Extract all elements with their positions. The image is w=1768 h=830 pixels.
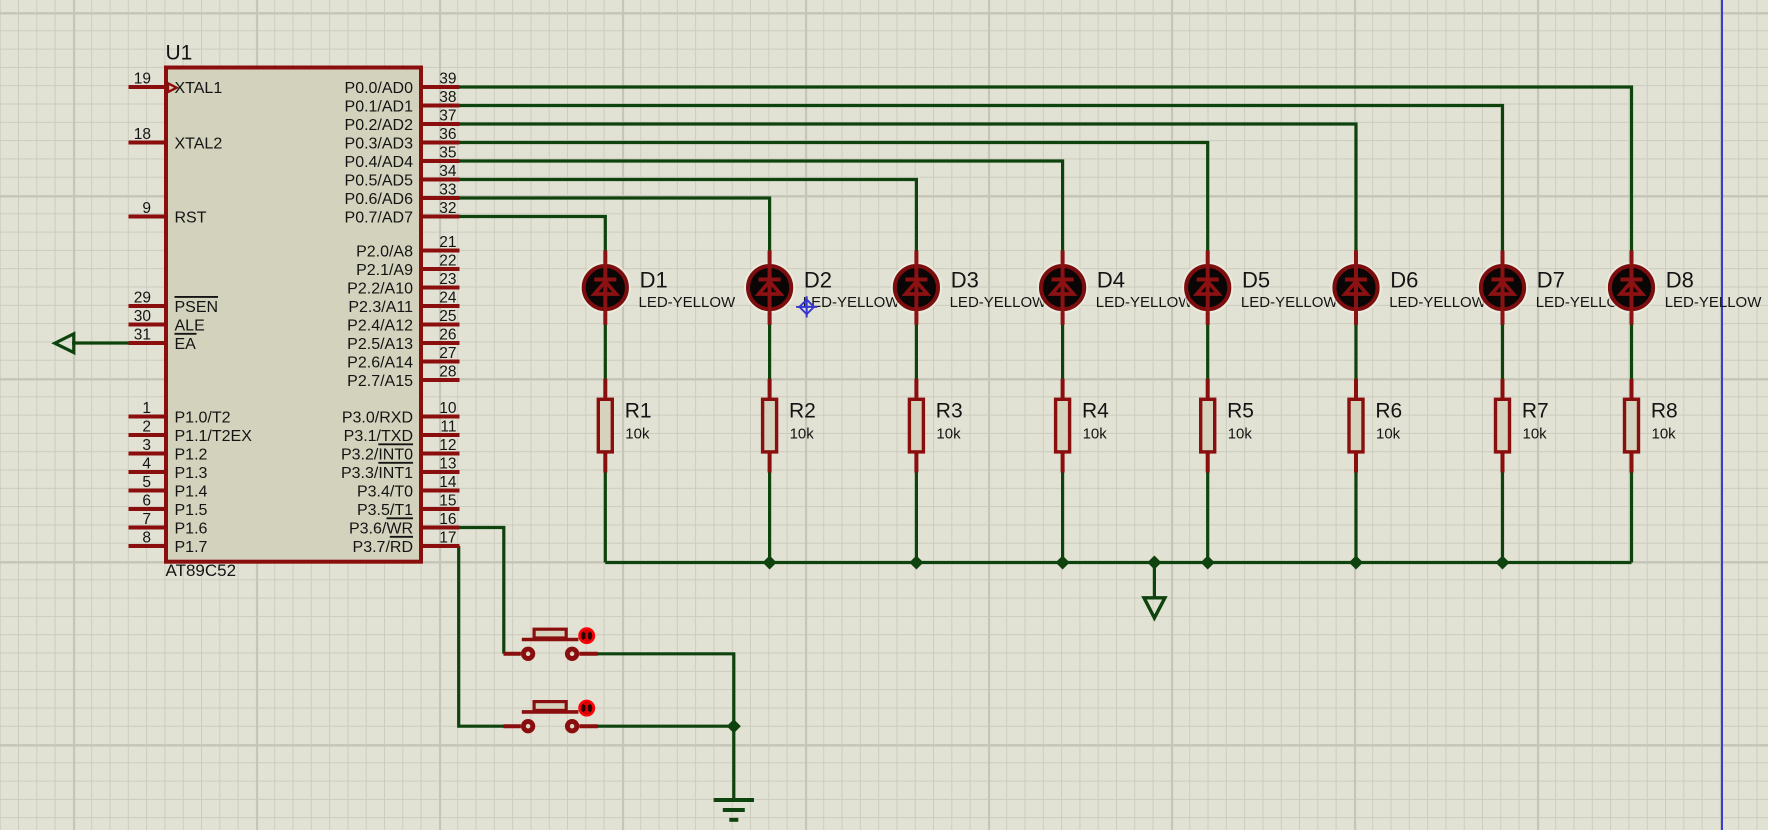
- wire LED D7 to resistor R7: [1501, 324, 1504, 380]
- svg-text:28: 28: [439, 364, 456, 381]
- svg-text:36: 36: [439, 126, 456, 143]
- LED D2: [745, 251, 900, 325]
- svg-text:5: 5: [142, 474, 151, 491]
- wire LED D2 to resistor R2: [768, 324, 771, 380]
- WR overline: [387, 517, 414, 519]
- svg-text:U1: U1: [166, 42, 193, 65]
- svg-text:12: 12: [439, 437, 456, 454]
- svg-text:16: 16: [439, 511, 456, 528]
- svg-text:6: 6: [142, 493, 151, 510]
- pin 14 P3.4/T0: [357, 474, 460, 500]
- svg-text:26: 26: [439, 327, 456, 344]
- pin 9 RST: [129, 200, 207, 226]
- svg-text:P0.1/AD1: P0.1/AD1: [345, 98, 414, 115]
- sheet border (blue): [1721, 0, 1723, 830]
- pin 4 P1.3: [129, 456, 208, 482]
- svg-text:22: 22: [439, 253, 456, 270]
- junction on rail at x=1208: [1202, 557, 1214, 569]
- svg-text:30: 30: [134, 308, 152, 325]
- wire rail to ground arrow: [1153, 563, 1156, 598]
- wire button 1 to node at x=733.8: [598, 654, 734, 726]
- svg-text:10k: 10k: [1652, 426, 1677, 443]
- svg-text:R5: R5: [1227, 399, 1254, 422]
- wire LED D4 to resistor R4: [1061, 324, 1064, 380]
- clock input marker pin 19: [168, 83, 177, 92]
- svg-text:LED-YELLOW: LED-YELLOW: [803, 294, 901, 311]
- junction on rail at x=1502: [1497, 557, 1509, 569]
- svg-text:LED-YELLOW: LED-YELLOW: [1096, 294, 1194, 311]
- svg-text:27: 27: [439, 345, 456, 362]
- svg-text:7: 7: [142, 511, 151, 528]
- wire button 2 to ground node: [598, 725, 734, 728]
- wire LED D8 to resistor R8: [1630, 324, 1633, 380]
- svg-text:LED-YELLOW: LED-YELLOW: [1665, 294, 1763, 311]
- pin 30 ALE: [129, 308, 205, 334]
- ground arrow (rail): [1144, 598, 1165, 618]
- svg-text:P2.2/A10: P2.2/A10: [347, 280, 413, 297]
- pin 5 P1.4: [129, 474, 208, 500]
- pin 3 P1.2: [129, 437, 208, 463]
- pin 38 P0.1/AD1: [345, 89, 460, 115]
- resistor R3 10k: [909, 379, 962, 473]
- svg-text:XTAL1: XTAL1: [175, 80, 223, 97]
- pin 6 P1.5: [129, 493, 208, 519]
- pin 34 P0.5/AD5: [345, 163, 460, 189]
- resistor R5 10k: [1201, 379, 1254, 473]
- wire pin 17 P3.7/RD to button 2: [459, 546, 504, 726]
- svg-text:13: 13: [439, 456, 456, 473]
- svg-text:P1.5: P1.5: [175, 502, 208, 519]
- svg-text:D5: D5: [1242, 267, 1270, 292]
- svg-text:R3: R3: [936, 399, 963, 422]
- wire resistor R1 to ground rail: [604, 472, 607, 563]
- ground (buttons): [714, 800, 754, 820]
- pin 21 P2.0/A8: [356, 234, 459, 260]
- svg-text:P3.3/INT1: P3.3/INT1: [341, 465, 413, 482]
- pin 39 P0.0/AD0: [345, 71, 460, 97]
- INT0 overline: [378, 443, 413, 445]
- pin 7 P1.6: [129, 511, 208, 537]
- resistor R4 10k: [1056, 379, 1110, 473]
- svg-text:10k: 10k: [1523, 426, 1548, 443]
- svg-text:P2.5/A13: P2.5/A13: [347, 336, 413, 353]
- svg-text:D7: D7: [1537, 267, 1565, 292]
- svg-text:10k: 10k: [936, 426, 961, 443]
- wire ground rail: [605, 561, 1631, 564]
- junction on rail at x=1356: [1350, 557, 1362, 569]
- svg-text:14: 14: [439, 474, 457, 491]
- wire resistor R7 to ground rail: [1501, 472, 1504, 563]
- pin 36 P0.3/AD3: [345, 126, 460, 152]
- svg-text:21: 21: [439, 234, 456, 251]
- svg-text:P1.6: P1.6: [175, 520, 208, 537]
- svg-text:10: 10: [439, 400, 457, 417]
- svg-text:R8: R8: [1651, 399, 1678, 422]
- svg-text:37: 37: [439, 108, 456, 125]
- svg-text:D8: D8: [1666, 267, 1694, 292]
- svg-text:P1.4: P1.4: [175, 483, 208, 500]
- origin marker (blue crosshair): [796, 296, 817, 317]
- INT1 overline: [378, 462, 413, 464]
- pin 2 P1.1/T2EX: [129, 419, 253, 445]
- svg-text:XTAL2: XTAL2: [175, 135, 223, 152]
- wire P0.0 (pin 39) to LED column x=1632: [459, 87, 1632, 251]
- svg-text:24: 24: [439, 290, 457, 307]
- wire resistor R8 to ground rail: [1630, 472, 1633, 563]
- svg-text:P2.1/A9: P2.1/A9: [356, 262, 413, 279]
- wire LED D6 to resistor R6: [1354, 324, 1357, 380]
- svg-text:D3: D3: [951, 267, 979, 292]
- wire resistor R2 to ground rail: [768, 472, 771, 563]
- PSEN overline: [175, 296, 219, 298]
- svg-text:19: 19: [134, 71, 151, 88]
- pin 13 P3.3/INT1: [341, 456, 460, 482]
- resistor R1 10k: [598, 379, 651, 473]
- svg-text:8: 8: [142, 530, 151, 547]
- pin 23 P2.2/A10: [347, 271, 459, 297]
- pin 26 P2.5/A13: [347, 327, 459, 353]
- svg-text:34: 34: [439, 163, 457, 180]
- svg-text:2: 2: [142, 419, 151, 436]
- wire P0.3 (pin 36) to LED column x=1208: [459, 143, 1208, 252]
- svg-text:18: 18: [134, 126, 151, 143]
- LED D5: [1183, 251, 1338, 325]
- wire P0.2 (pin 37) to LED column x=1356: [459, 124, 1356, 251]
- svg-text:1: 1: [142, 400, 151, 417]
- wire pin 16 P3.6/WR to button 1: [459, 528, 504, 654]
- svg-text:P0.7/AD7: P0.7/AD7: [345, 209, 414, 226]
- EA input arrow: [55, 334, 74, 353]
- svg-text:P1.0/T2: P1.0/T2: [175, 409, 231, 426]
- LED D8: [1607, 251, 1762, 325]
- pin 33 P0.6/AD6: [345, 182, 460, 208]
- svg-text:P2.7/A15: P2.7/A15: [347, 373, 413, 390]
- svg-text:P1.7: P1.7: [175, 539, 208, 556]
- LED D1: [581, 251, 736, 325]
- pin 15 P3.5/T1: [357, 493, 460, 519]
- pin 11 P3.1/TXD: [344, 419, 460, 445]
- push button 2 (to P3.7/RD): [503, 701, 597, 731]
- pin 37 P0.2/AD2: [345, 108, 460, 134]
- svg-text:D6: D6: [1390, 267, 1418, 292]
- LED D6: [1331, 251, 1486, 325]
- svg-text:P1.1/T2EX: P1.1/T2EX: [175, 428, 253, 445]
- svg-text:RST: RST: [175, 209, 207, 226]
- svg-text:EA: EA: [175, 336, 197, 353]
- svg-text:P0.6/AD6: P0.6/AD6: [345, 191, 414, 208]
- wire resistor R6 to ground rail: [1354, 472, 1357, 563]
- svg-text:AT89C52: AT89C52: [166, 561, 237, 580]
- svg-text:39: 39: [439, 71, 456, 88]
- svg-text:P0.4/AD4: P0.4/AD4: [345, 154, 414, 171]
- svg-text:R2: R2: [789, 399, 816, 422]
- resistor R2 10k: [763, 379, 816, 473]
- junction on rail at x=770: [764, 557, 776, 569]
- pin 31 EA: [129, 327, 197, 353]
- svg-text:15: 15: [439, 493, 456, 510]
- pin 32 P0.7/AD7: [345, 200, 460, 226]
- svg-text:31: 31: [134, 327, 151, 344]
- wire LED D3 to resistor R3: [915, 324, 918, 380]
- svg-text:P3.2/INT0: P3.2/INT0: [341, 446, 413, 463]
- wire resistor R4 to ground rail: [1061, 472, 1064, 563]
- svg-text:P2.6/A14: P2.6/A14: [347, 354, 413, 371]
- junction on rail at x=916: [911, 557, 923, 569]
- svg-text:10k: 10k: [625, 426, 650, 443]
- svg-text:D1: D1: [640, 267, 668, 292]
- resistor R7 10k: [1496, 379, 1549, 473]
- wire EA pin 31: [72, 341, 129, 344]
- pin 28 P2.7/A15: [347, 364, 459, 390]
- pin 16 P3.6/WR: [349, 511, 460, 537]
- svg-text:P3.7/RD: P3.7/RD: [353, 539, 413, 556]
- svg-text:10k: 10k: [1228, 426, 1253, 443]
- resistor R6 10k: [1349, 379, 1402, 473]
- svg-text:P3.1/TXD: P3.1/TXD: [344, 428, 413, 445]
- svg-text:10k: 10k: [1376, 426, 1401, 443]
- EA overline: [175, 333, 197, 335]
- svg-text:P1.3: P1.3: [175, 465, 208, 482]
- svg-text:P0.5/AD5: P0.5/AD5: [345, 172, 414, 189]
- wire P0.7 (pin 32) to LED column x=605: [459, 217, 605, 252]
- junction buttons/ground node: [728, 720, 740, 732]
- wire node to ground symbol: [732, 726, 735, 800]
- svg-text:10k: 10k: [1083, 426, 1108, 443]
- pin 29 PSEN: [129, 290, 219, 316]
- svg-text:P0.0/AD0: P0.0/AD0: [345, 80, 414, 97]
- wire resistor R5 to ground rail: [1206, 472, 1209, 563]
- svg-text:10k: 10k: [790, 426, 815, 443]
- pin 18 XTAL2: [129, 126, 223, 152]
- svg-text:D4: D4: [1097, 267, 1125, 292]
- svg-text:LED-YELLOW: LED-YELLOW: [1389, 294, 1487, 311]
- push button 1 (to P3.6/WR): [503, 629, 597, 659]
- wire P0.4 (pin 35) to LED column x=1063: [459, 161, 1063, 251]
- junction on rail at x=1154: [1149, 557, 1161, 569]
- svg-text:P2.3/A11: P2.3/A11: [348, 299, 413, 316]
- wire LED D5 to resistor R5: [1206, 324, 1209, 380]
- svg-text:3: 3: [142, 437, 151, 454]
- svg-text:P1.2: P1.2: [175, 446, 208, 463]
- pin 35 P0.4/AD4: [345, 145, 460, 171]
- svg-text:P2.0/A8: P2.0/A8: [356, 243, 413, 260]
- wire resistor R3 to ground rail: [915, 472, 918, 563]
- svg-text:P3.4/T0: P3.4/T0: [357, 483, 413, 500]
- pin 10 P3.0/RXD: [342, 400, 460, 426]
- svg-text:R6: R6: [1375, 399, 1402, 422]
- svg-text:29: 29: [134, 290, 151, 307]
- svg-text:33: 33: [439, 182, 456, 199]
- svg-text:R1: R1: [625, 399, 652, 422]
- wire P0.6 (pin 33) to LED column x=770: [459, 198, 770, 251]
- RD overline: [390, 536, 413, 538]
- resistor R8 10k: [1625, 379, 1678, 473]
- svg-text:ALE: ALE: [175, 317, 205, 334]
- svg-text:9: 9: [142, 200, 151, 217]
- svg-text:P2.4/A12: P2.4/A12: [347, 317, 413, 334]
- pin 27 P2.6/A14: [347, 345, 459, 371]
- svg-text:35: 35: [439, 145, 456, 162]
- svg-text:LED-YELLOW: LED-YELLOW: [639, 294, 737, 311]
- pin 25 P2.4/A12: [347, 308, 459, 334]
- pin 17 P3.7/RD: [353, 530, 460, 556]
- svg-text:R4: R4: [1082, 399, 1109, 422]
- svg-text:25: 25: [439, 308, 456, 325]
- svg-text:P3.0/RXD: P3.0/RXD: [342, 409, 413, 426]
- svg-text:32: 32: [439, 200, 456, 217]
- pin 24 P2.3/A11: [348, 290, 459, 316]
- wire LED D1 to resistor R1: [604, 324, 607, 380]
- wire P0.5 (pin 34) to LED column x=916: [459, 180, 916, 252]
- svg-text:PSEN: PSEN: [175, 299, 219, 316]
- svg-text:LED-YELLOW: LED-YELLOW: [950, 294, 1048, 311]
- op U1 AT89C52 body: [166, 68, 421, 562]
- pin 19 XTAL1: [129, 71, 223, 97]
- LED D4: [1038, 251, 1193, 325]
- svg-text:P3.6/WR: P3.6/WR: [349, 520, 413, 537]
- wire P0.1 (pin 38) to LED column x=1502: [459, 106, 1503, 252]
- pin 12 P3.2/INT0: [341, 437, 460, 463]
- svg-text:P0.2/AD2: P0.2/AD2: [345, 117, 414, 134]
- svg-text:17: 17: [439, 530, 456, 547]
- LED D7: [1478, 251, 1633, 325]
- svg-text:LED-YELLOW: LED-YELLOW: [1241, 294, 1339, 311]
- svg-text:R7: R7: [1522, 399, 1549, 422]
- pin 22 P2.1/A9: [356, 253, 459, 279]
- svg-text:23: 23: [439, 271, 456, 288]
- svg-text:11: 11: [440, 419, 456, 436]
- svg-text:38: 38: [439, 89, 456, 106]
- pin 1 P1.0/T2: [129, 400, 231, 426]
- svg-text:P3.5/T1: P3.5/T1: [357, 502, 413, 519]
- svg-text:P0.3/AD3: P0.3/AD3: [345, 135, 414, 152]
- pin 8 P1.7: [129, 530, 208, 556]
- LED D3: [892, 251, 1047, 325]
- junction on rail at x=1063: [1057, 557, 1069, 569]
- svg-text:4: 4: [142, 456, 151, 473]
- svg-text:D2: D2: [804, 267, 832, 292]
